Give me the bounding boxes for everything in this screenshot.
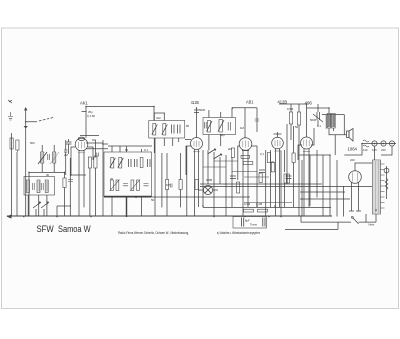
svg-text:110: 110 (363, 148, 368, 152)
svg-text:25: 25 (110, 177, 114, 181)
svg-text:500: 500 (30, 141, 35, 145)
svg-text:a) Voltzahlen u. Widerstandswe: a) Voltzahlen u. Widerstandswerte angege… (217, 231, 260, 235)
svg-text:0,5: 0,5 (270, 160, 274, 164)
svg-text:0,2: 0,2 (94, 154, 98, 158)
svg-text:Samoa W: Samoa W (58, 224, 91, 235)
svg-text:0,2M: 0,2M (256, 202, 263, 206)
svg-text:5000: 5000 (199, 108, 206, 112)
svg-text:0,1: 0,1 (317, 124, 321, 128)
svg-text:1064: 1064 (348, 147, 358, 153)
svg-text:AB1: AB1 (246, 100, 254, 106)
svg-text:50: 50 (295, 125, 299, 129)
svg-text:220: 220 (350, 158, 355, 162)
svg-text:50p: 50p (220, 133, 225, 137)
svg-text:0,1·50: 0,1·50 (87, 114, 95, 118)
svg-text:50: 50 (125, 148, 129, 152)
svg-text:125: 125 (372, 148, 377, 152)
svg-text:0,5M: 0,5M (206, 178, 213, 182)
svg-text:SFW: SFW (37, 224, 55, 235)
svg-text:496: 496 (305, 101, 313, 107)
svg-text:0,1: 0,1 (144, 148, 148, 152)
svg-text:30: 30 (46, 173, 50, 177)
svg-text:1M: 1M (166, 183, 171, 187)
svg-text:2M: 2M (64, 153, 69, 157)
svg-text:AK1: AK1 (80, 101, 88, 107)
svg-text:220: 220 (381, 148, 386, 152)
svg-text:25p: 25p (88, 110, 93, 114)
svg-text:412B: 412B (191, 100, 199, 106)
svg-text:0,5M: 0,5M (287, 107, 294, 111)
svg-text:Trenn: Trenn (250, 223, 258, 227)
svg-text:1M: 1M (240, 126, 245, 130)
svg-text:2M: 2M (228, 147, 233, 151)
svg-text:0,3M: 0,3M (244, 202, 251, 206)
svg-text:412: 412 (156, 116, 161, 120)
svg-text:0,1: 0,1 (260, 152, 264, 156)
svg-text:Radio-Firma Werner-Schmitz, Oc: Radio-Firma Werner-Schmitz, Ochsen W., N… (118, 231, 189, 235)
svg-text:Netz: Netz (369, 223, 375, 227)
svg-text:50: 50 (151, 198, 155, 202)
svg-text:80: 80 (186, 124, 190, 128)
svg-text:5000: 5000 (310, 118, 317, 122)
svg-text:412B: 412B (278, 100, 288, 106)
